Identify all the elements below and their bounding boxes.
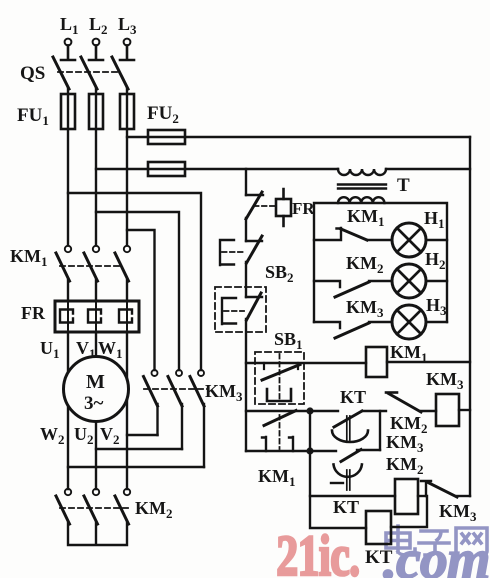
svg-text:KM3: KM3 xyxy=(346,297,384,320)
svg-text:KM3: KM3 xyxy=(439,501,477,524)
svg-text:KM1: KM1 xyxy=(390,342,428,365)
svg-text:H3: H3 xyxy=(426,295,447,318)
svg-text:FU2: FU2 xyxy=(147,103,179,126)
svg-text:M: M xyxy=(86,371,105,393)
svg-text:KM3: KM3 xyxy=(386,432,424,455)
svg-text:V1: V1 xyxy=(76,338,96,361)
svg-text:L2: L2 xyxy=(89,14,108,37)
svg-text:.com: .com xyxy=(383,529,489,578)
svg-text:FR: FR xyxy=(292,199,315,218)
svg-text:KM2: KM2 xyxy=(135,498,173,521)
svg-text:KM3: KM3 xyxy=(426,369,464,392)
svg-text:3~: 3~ xyxy=(84,393,104,414)
svg-text:U2: U2 xyxy=(74,424,94,447)
svg-text:H2: H2 xyxy=(425,249,446,272)
svg-text:L1: L1 xyxy=(60,14,79,37)
svg-text:SB2: SB2 xyxy=(265,262,294,285)
svg-text:FR: FR xyxy=(21,303,46,323)
svg-text:KM1: KM1 xyxy=(258,466,296,489)
svg-text:V2: V2 xyxy=(100,424,120,447)
svg-text:KM2: KM2 xyxy=(386,454,424,477)
svg-text:KT: KT xyxy=(333,497,359,517)
svg-text:KM1: KM1 xyxy=(10,246,48,269)
svg-text:KM2: KM2 xyxy=(346,253,384,276)
svg-text:L3: L3 xyxy=(118,14,137,37)
svg-text:T: T xyxy=(397,175,410,196)
svg-text:KT: KT xyxy=(365,547,393,568)
svg-text:21ic.: 21ic. xyxy=(276,524,359,578)
svg-text:W1: W1 xyxy=(98,338,123,361)
svg-text:SB1: SB1 xyxy=(274,329,303,352)
svg-text:KT: KT xyxy=(340,387,366,407)
svg-text:KM1: KM1 xyxy=(347,206,385,229)
svg-text:QS: QS xyxy=(20,63,45,84)
svg-text:H1: H1 xyxy=(424,208,445,231)
svg-text:FU1: FU1 xyxy=(17,105,49,128)
svg-text:KM3: KM3 xyxy=(205,381,243,404)
svg-text:U1: U1 xyxy=(40,338,60,361)
svg-text:W2: W2 xyxy=(40,424,65,447)
